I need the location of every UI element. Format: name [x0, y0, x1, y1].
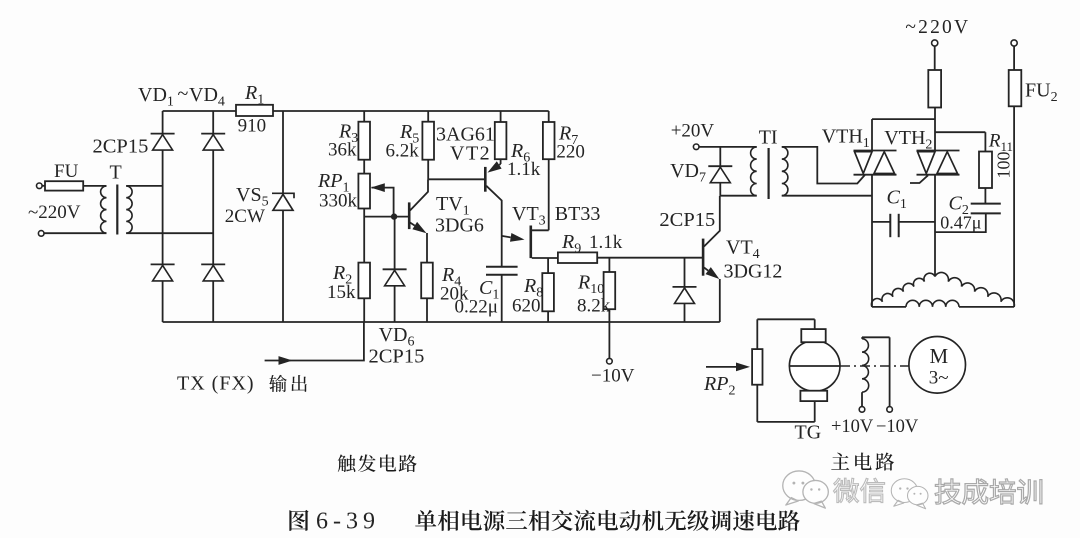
svg-text:TI: TI: [759, 127, 778, 149]
svg-text:3DG12: 3DG12: [724, 261, 783, 283]
svg-text:VTH2: VTH2: [884, 127, 932, 153]
svg-text:TG: TG: [795, 422, 822, 444]
svg-text:3DG6: 3DG6: [435, 215, 484, 237]
svg-text:2CP15: 2CP15: [369, 346, 425, 368]
svg-text:6-39: 6-39: [316, 509, 380, 535]
svg-text:8.2k: 8.2k: [577, 296, 611, 317]
svg-text:220: 220: [556, 142, 585, 163]
svg-text:~220V: ~220V: [905, 17, 970, 38]
svg-text:330k: 330k: [319, 191, 358, 212]
svg-text:2CW: 2CW: [225, 206, 265, 227]
svg-text:VTH1: VTH1: [822, 126, 870, 152]
svg-text:0.47μ: 0.47μ: [940, 213, 981, 233]
svg-text:~: ~: [178, 83, 189, 105]
svg-text:+20V: +20V: [671, 121, 715, 142]
svg-text:FU: FU: [54, 161, 79, 182]
svg-text:2CP15: 2CP15: [659, 209, 715, 231]
svg-text:620: 620: [512, 296, 541, 317]
svg-text:6.2k: 6.2k: [386, 141, 420, 162]
svg-text:15k: 15k: [327, 282, 356, 303]
svg-text:VT2: VT2: [450, 143, 491, 165]
svg-text:M: M: [930, 344, 949, 368]
svg-text:0.22μ: 0.22μ: [455, 297, 498, 318]
svg-text:T: T: [110, 162, 122, 184]
svg-text:BT33: BT33: [555, 203, 601, 225]
svg-text:−10V: −10V: [591, 366, 635, 387]
svg-text:TX (FX): TX (FX): [177, 373, 255, 395]
svg-text:−10V: −10V: [876, 417, 919, 437]
svg-text:3~: 3~: [929, 368, 949, 389]
svg-text:910: 910: [238, 116, 267, 137]
svg-text:~220V: ~220V: [28, 202, 81, 223]
svg-text:2CP15: 2CP15: [93, 136, 149, 158]
svg-text:1.1k: 1.1k: [589, 232, 623, 253]
svg-text:1.1k: 1.1k: [507, 159, 541, 180]
svg-text:36k: 36k: [328, 140, 357, 161]
svg-text:100: 100: [994, 152, 1014, 179]
svg-text:+10V: +10V: [831, 417, 874, 437]
